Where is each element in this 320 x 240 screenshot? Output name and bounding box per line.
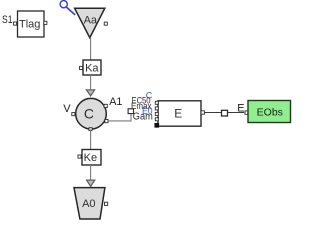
svg-text:Ke: Ke <box>84 152 97 164</box>
junction square on wire <box>222 110 228 116</box>
block E <box>158 101 201 126</box>
block Ka <box>83 60 101 75</box>
block Ke <box>82 150 101 166</box>
wire E to junction <box>204 112 221 114</box>
port Aa right <box>104 22 107 25</box>
port Ke left <box>78 155 81 158</box>
port E input 1 (C) <box>155 101 158 104</box>
svg-text:E: E <box>237 103 244 115</box>
port E input 5 (Gam, filled) <box>155 123 159 127</box>
wire Aa to Ka <box>90 38 92 60</box>
svg-text:Tlag: Tlag <box>19 19 40 31</box>
compartment A0 (trapezoid) <box>74 188 105 219</box>
observation block EObs <box>248 101 291 123</box>
port E input 4 (E0) <box>155 118 158 121</box>
arrowhead into A0 <box>87 180 95 186</box>
svg-text:Gam: Gam <box>133 111 153 122</box>
svg-text:A0: A0 <box>82 198 95 210</box>
compartment Aa (triangle) <box>75 8 105 38</box>
port A0 right <box>105 202 108 205</box>
wire C to E (with corner) <box>108 113 131 121</box>
svg-text:V: V <box>63 103 71 115</box>
port Tlag right <box>44 21 47 24</box>
port EObs left <box>245 111 248 114</box>
magnifier icon <box>60 1 75 15</box>
port Tlag left <box>14 22 17 25</box>
compartment C (circle) <box>76 98 107 129</box>
block Tlag <box>18 11 45 37</box>
port C bottom <box>89 128 92 131</box>
svg-text:E: E <box>174 106 182 120</box>
port E input 2 (EC50) <box>155 107 158 110</box>
port C left (V) <box>72 113 75 116</box>
svg-text:A1: A1 <box>109 96 122 108</box>
svg-text:Aa: Aa <box>84 15 98 27</box>
junction square on wire <box>128 109 133 114</box>
wire Ka to C <box>90 75 92 90</box>
svg-text:EObs: EObs <box>257 106 283 118</box>
wire Ke to A0 <box>90 165 92 181</box>
port C top-right (A1) <box>104 104 107 107</box>
wire C bottom to Ke <box>90 130 92 150</box>
port C right (output) <box>105 120 108 123</box>
port E input 3 (Emax) <box>155 112 158 115</box>
wire junction to EObs <box>228 112 245 114</box>
svg-text:C: C <box>84 105 94 121</box>
port Ka left <box>80 66 83 69</box>
svg-text:Ka: Ka <box>85 62 99 74</box>
port E output right <box>201 111 204 114</box>
arrowhead into C <box>87 90 95 96</box>
svg-text:S1: S1 <box>2 14 13 26</box>
